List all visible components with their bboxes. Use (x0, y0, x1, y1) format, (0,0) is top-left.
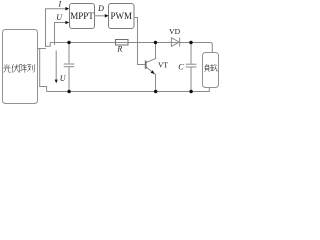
PWM box U2 (109, 4, 135, 29)
junction node bottom-emitter (154, 90, 157, 93)
svg-text:I: I (57, 0, 61, 9)
svg-text:PWM: PWM (110, 11, 132, 21)
wire PWM output down to VT base (134, 18, 145, 65)
arrowhead I into MPPT (65, 7, 69, 11)
svg-text:VD: VD (169, 27, 180, 36)
junction node bottom-Cin (67, 90, 70, 93)
junction node bottom-Cout (189, 90, 192, 93)
wire main top bus (50, 42, 210, 44)
transistor Q1 emitter (146, 67, 156, 92)
svg-text:VT: VT (158, 61, 168, 70)
label 光伏阵列 (PV array) drawn strokes (4, 64, 35, 72)
arrowhead VT emitter (151, 70, 155, 74)
arrowhead D into PWM (105, 14, 109, 18)
wire bus corner into load top (210, 43, 212, 53)
wire input capacitor top lead (68, 43, 70, 64)
svg-text:MPPT: MPPT (70, 11, 94, 21)
svg-text:R: R (116, 45, 122, 54)
svg-text:D: D (97, 4, 104, 13)
label 负载 (load) drawn strokes (205, 64, 218, 72)
svg-text:C: C (178, 63, 184, 72)
voltage arrow U line (54, 43, 56, 45)
diode VD cathode bar (179, 38, 181, 47)
负 (205, 64, 210, 72)
arrowhead voltage U down (55, 80, 58, 84)
wire output capacitor bottom lead (190, 67, 192, 92)
MPPT box U1 (70, 4, 95, 29)
capacitor C plates (186, 63, 197, 65)
junction node bus-Cout (189, 41, 192, 44)
wire MPPT to PWM (D) (95, 15, 106, 17)
wire output capacitor top lead (190, 43, 192, 64)
伏 (12, 64, 19, 72)
resistor R body (116, 40, 129, 46)
wire U sense vertical + horizontal to MPPT (55, 23, 67, 43)
wire PV+ horizontal (38, 48, 46, 50)
diode VD triangle (171, 38, 179, 47)
junction node bus-collector (154, 41, 157, 44)
PV array box (3, 30, 38, 104)
光 (4, 64, 11, 72)
列 (27, 64, 34, 72)
wire I sense vertical + horizontal to MPPT (46, 9, 67, 47)
load box (203, 53, 219, 88)
capacitor C-in plates (64, 63, 75, 65)
transistor Q1 collector (146, 43, 156, 63)
阵 (20, 64, 27, 72)
wire PV- down and to bottom bus (40, 49, 47, 92)
载 (210, 64, 217, 71)
junction node bus-Cin (67, 41, 70, 44)
arrowhead U into MPPT (65, 21, 69, 25)
wire bottom bus (47, 88, 210, 92)
wire jog PV+ to bus (46, 43, 51, 47)
wire input capacitor bottom lead (68, 67, 70, 92)
transistor Q1 base bar (145, 61, 147, 69)
